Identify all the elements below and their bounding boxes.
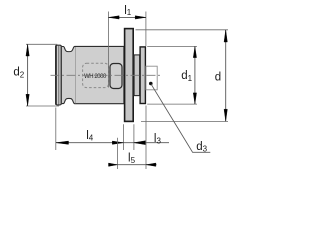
dimension d1: top extension line <box>147 45 197 47</box>
dimension row l4+l3: dimension line <box>56 142 169 144</box>
dimension d: bottom extension line <box>141 120 228 122</box>
dimension d2: down arrow <box>26 94 29 106</box>
centerline (axis) <box>51 74 161 76</box>
neck <box>134 55 140 96</box>
dimension d1: dimension line <box>194 46 196 104</box>
dimension l3: extension line at flange right <box>133 124 135 150</box>
body left face line <box>55 45 57 104</box>
dimension d2: up arrow <box>26 45 29 57</box>
dimension l1: dimension line <box>108 16 145 18</box>
dimension d2: bottom extension line <box>26 105 59 107</box>
dimension d: top extension line <box>136 29 229 31</box>
dimension l5: right outside arrow <box>146 163 156 166</box>
adapter body with ball groove <box>61 46 124 103</box>
dimension d: down arrow <box>224 109 227 121</box>
hidden internal square (dashed) <box>83 63 109 87</box>
dimension l1: extension line left <box>107 12 109 88</box>
dimension l5: left extension line <box>116 138 118 169</box>
dimension d1: bottom extension line <box>147 103 197 105</box>
dimension l5: left outside arrow <box>109 163 118 166</box>
dimension l1: extension line right upper <box>145 12 147 47</box>
chamfer line 2 on body left end <box>58 46 60 105</box>
flange (diameter d) <box>125 29 134 122</box>
chamfer line on body left end <box>60 46 62 105</box>
dimension l3: left arrow <box>134 141 146 145</box>
dimension d1: up arrow <box>193 47 196 58</box>
dimension l4: left extension line <box>55 108 57 151</box>
dimension l1: right arrow <box>135 16 146 19</box>
drive slot (solid rounded rect) <box>110 64 122 89</box>
dimension d1: down arrow <box>193 93 196 104</box>
leader dot for d3 <box>149 82 153 86</box>
body rim (left end collar) <box>56 45 62 105</box>
dimension l5: dimension line <box>109 164 157 166</box>
surface line after groove <box>74 47 76 103</box>
dimension d: dimension line <box>225 30 227 122</box>
front disk (diameter d1) <box>140 47 145 104</box>
dimension l4: right arrow <box>112 141 123 144</box>
dimension d: up arrow <box>224 30 227 42</box>
svg-text:d: d <box>215 71 221 83</box>
dimension l4: left arrow <box>56 141 69 144</box>
leader line d3 <box>151 84 210 152</box>
shared right extension line (l1/l3/l5) lower segment <box>145 106 147 170</box>
dimension d2: top extension line <box>26 43 57 45</box>
dimension l1: left arrow <box>109 16 120 19</box>
dimension d2: dimension line <box>27 44 29 106</box>
tap shank (phantom) <box>146 66 157 90</box>
dimension l4/l3: extension line at flange left <box>123 124 125 150</box>
